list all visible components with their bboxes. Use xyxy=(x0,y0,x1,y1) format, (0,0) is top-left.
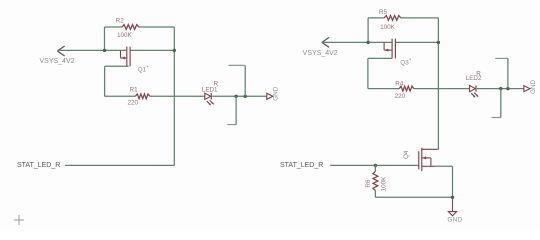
junction gate segment to bus xyxy=(437,41,440,44)
wire STAT_LED_R (left) xyxy=(65,164,174,166)
svg-text:STAT_LED_R: STAT_LED_R xyxy=(280,162,323,169)
ground GND symbol (bottom) xyxy=(448,212,456,216)
wire R5 left vertical xyxy=(367,18,369,43)
wire R1 left segment xyxy=(105,95,136,97)
svg-text:R5: R5 xyxy=(379,9,388,16)
wire gate/drain bus vertical (right) xyxy=(437,18,439,149)
transistor Q4 (N-MOSFET) xyxy=(419,148,439,171)
svg-text:R6: R6 xyxy=(365,179,372,188)
label Q1 xyxy=(138,66,148,74)
junction STAT_LED_R to R6 xyxy=(374,164,377,167)
wire gate net vertical (R2 right / STAT_LED_R riser) xyxy=(173,27,175,165)
bracket lower arm (left) xyxy=(227,124,236,126)
node VSYS_4V2 (left net flag arrow) xyxy=(57,46,64,56)
wire R2 row right segment xyxy=(139,26,175,28)
junction VSYS rail and R5 left vertical xyxy=(366,41,369,44)
resistor R4 xyxy=(399,86,414,91)
junction at VSYS rail and R2 left vertical xyxy=(103,49,106,52)
node VSYS_4V2 (right net flag arrow) xyxy=(322,37,329,47)
wire LED2 to GND flag xyxy=(477,88,524,90)
svg-text:STAT_LED_R: STAT_LED_R xyxy=(17,162,60,169)
LED LED2 xyxy=(470,85,479,97)
wire STAT_LED_R (right) xyxy=(330,164,419,166)
wire LED1 to GND flag xyxy=(212,95,267,97)
origin crosshair xyxy=(14,215,24,225)
wire R2 left vertical xyxy=(104,27,106,50)
resistor R5 xyxy=(384,16,401,21)
svg-text:R4: R4 xyxy=(395,80,404,87)
wire upper bracket leg (left) xyxy=(244,65,246,96)
svg-text:R1: R1 xyxy=(130,87,139,94)
wire VSYS rail (right) xyxy=(322,41,392,43)
resistor R1 xyxy=(136,94,150,99)
wire upper bracket leg (right) xyxy=(507,58,509,88)
svg-text:100K: 100K xyxy=(381,176,388,192)
svg-text:220: 220 xyxy=(128,100,139,107)
junction lower bracket leg (right) xyxy=(499,87,502,90)
wire Q4 source to GND xyxy=(435,166,453,211)
wire VSYS rail (left) xyxy=(57,49,126,51)
bracket upper arm (right) xyxy=(495,57,508,59)
junction GND rail xyxy=(451,196,454,199)
label Q3 xyxy=(400,59,410,67)
svg-text:Q3: Q3 xyxy=(400,59,409,66)
LED LED1 xyxy=(205,93,214,105)
svg-text:R: R xyxy=(476,70,481,77)
svg-text:Q1: Q1 xyxy=(138,66,147,73)
wire R2 row left segment xyxy=(105,26,123,28)
junction lower bracket leg xyxy=(234,95,237,98)
svg-text:100K: 100K xyxy=(117,32,133,39)
svg-text:220: 220 xyxy=(395,93,406,100)
bracket upper arm (left) xyxy=(228,64,245,66)
wire R5 row right segment xyxy=(401,17,439,19)
resistor R6 xyxy=(373,171,378,190)
svg-text:GND: GND xyxy=(447,216,462,223)
wire R4 left segment xyxy=(368,88,399,90)
transistor Q1 (P-MOSFET) xyxy=(121,47,131,67)
wire lower bracket leg (right) xyxy=(500,89,502,118)
svg-text:GND: GND xyxy=(530,79,537,93)
svg-text:VSYS_4V2: VSYS_4V2 xyxy=(39,58,74,65)
wire R4 to LED2 xyxy=(414,88,470,90)
svg-text:Q4: Q4 xyxy=(403,150,410,159)
wire R5 row left segment xyxy=(368,17,384,19)
wire lower bracket leg (left) xyxy=(235,96,237,124)
bracket lower arm (right) xyxy=(492,117,501,119)
junction upper bracket leg xyxy=(244,95,247,98)
ground GND net flag (left) xyxy=(267,93,273,99)
transistor Q3 (P-MOSFET) xyxy=(384,39,395,59)
resistor R2 xyxy=(122,25,139,30)
wire Q1 drain stub and left rail down to R1 xyxy=(105,66,129,96)
wire R6 bottom stub and corner to GND rail xyxy=(375,191,452,198)
wire Q1 gate segment xyxy=(131,49,175,51)
svg-text:GND: GND xyxy=(272,86,279,100)
ground GND net flag (right) xyxy=(524,86,530,92)
wire R6 top stub xyxy=(374,165,376,171)
svg-text:VSYS_4V2: VSYS_4V2 xyxy=(303,50,338,57)
svg-text:R2: R2 xyxy=(116,17,125,24)
junction upper bracket leg (right) xyxy=(506,87,509,90)
wire Q3 gate segment xyxy=(396,41,439,43)
svg-text:100K: 100K xyxy=(380,24,396,31)
junction gate segment to riser xyxy=(173,49,176,52)
wire Q3 drain stub and left rail down to R4 xyxy=(368,58,392,88)
wire R1 to LED1 xyxy=(150,95,205,97)
svg-text:R: R xyxy=(214,81,219,88)
